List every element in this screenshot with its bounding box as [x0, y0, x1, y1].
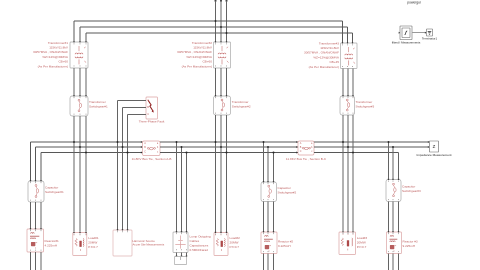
junction bus B / SG2 B	[220, 146, 222, 148]
wire bus A phase 1	[31, 141, 143, 143]
svg-text:Transformer: Transformer	[232, 100, 249, 104]
reactor R2 label	[278, 239, 293, 248]
svg-text:(As Per Manufacturer): (As Per Manufacturer)	[182, 64, 212, 68]
wire lump stub 3	[186, 253, 188, 258]
svg-text:115kV/11.8kV: 115kV/11.8kV	[320, 46, 340, 50]
fault block Three-Phase Fault	[146, 97, 158, 119]
svg-text:P.f=0.7: P.f=0.7	[357, 245, 367, 249]
svg-text:Capacitor: Capacitor	[45, 186, 58, 190]
junction bus A / SG1 C	[85, 151, 87, 153]
wire bus B phase 3	[160, 152, 298, 154]
svg-text:Switchgear#2: Switchgear#2	[278, 191, 297, 195]
wire T3-SG3 phase A	[342, 69, 344, 97]
wire T1 riser A	[73, 21, 75, 42]
wire SG3 feeder C	[352, 115, 354, 231]
wire SG2 feeder C	[226, 115, 228, 232]
transformer T1 Transformer#1	[70, 42, 88, 68]
wire capB drop 3	[273, 153, 275, 182]
wire capC-R3 2	[392, 202, 394, 232]
wire bus C phase 1	[314, 141, 428, 143]
wire T2-SG2 phase C	[226, 68, 228, 96]
svg-text:0.5Mfd/Farad: 0.5Mfd/Farad	[190, 248, 209, 252]
junction source B / top bus	[220, 26, 222, 28]
wire bus C phase 2	[314, 146, 428, 148]
wire SG3 feeder A	[342, 115, 344, 231]
breaker Capacitor Switchgear#1	[28, 181, 44, 202]
svg-text:9.225mH: 9.225mH	[403, 244, 416, 248]
breaker SG3 Transformer Switchgear#3 label	[356, 100, 375, 109]
wire measurement to terminator	[412, 32, 425, 34]
svg-text:9.225mH: 9.225mH	[278, 244, 291, 248]
wire capB-R2 3	[273, 202, 275, 232]
harmonic source label	[133, 239, 165, 247]
breaker Capacitor Switchgear#3	[386, 180, 401, 202]
wire SG1 feeder A	[73, 116, 75, 232]
svg-text:As per Site Measurements: As per Site Measurements	[133, 243, 165, 247]
svg-text:CB+45: CB+45	[329, 60, 339, 64]
svg-text:CB+60: CB+60	[58, 60, 68, 64]
junction bus B / capB 2	[267, 146, 269, 148]
wire bus B phase 1	[160, 141, 298, 143]
svg-text:(As Per Manufacturer): (As Per Manufacturer)	[38, 64, 68, 68]
wire capC drop 3	[398, 153, 400, 180]
wire T3 riser C	[352, 33, 354, 43]
svg-text:Reactor #2: Reactor #2	[278, 239, 293, 243]
breaker SG1 Transformer Switchgear#1 label	[89, 100, 108, 109]
transformer T2 label	[177, 41, 213, 69]
svg-text:%Z=12%@30MVA: %Z=12%@30MVA	[42, 55, 69, 59]
svg-text:A: A	[147, 98, 149, 102]
wire capB drop 1	[263, 142, 265, 182]
wire capA-R1 1	[30, 202, 32, 229]
wire T2-SG2 phase A	[215, 68, 217, 96]
junction bus C / capC 2	[392, 146, 394, 148]
terminator block	[427, 29, 433, 36]
svg-text:Transformer#2: Transformer#2	[192, 41, 212, 45]
svg-text:Switchgear#1: Switchgear#1	[45, 190, 64, 194]
svg-text:115kV/11.8kV: 115kV/11.8kV	[193, 46, 213, 50]
svg-text:11.8KV Bus Tie , Section B-C: 11.8KV Bus Tie , Section B-C	[286, 157, 327, 161]
load L1 Load#1	[73, 233, 87, 256]
wire T3-SG3 phase C	[352, 69, 354, 97]
wire top bus phase B	[80, 26, 348, 28]
svg-text:30/57MVA , ONAN/ONAF: 30/57MVA , ONAN/ONAF	[177, 50, 212, 54]
wire R2 tail 3	[273, 254, 275, 270]
svg-text:Three-Phase Fault: Three-Phase Fault	[139, 120, 165, 124]
wire lump stub 2	[181, 253, 183, 258]
wire R3 tail 1	[388, 254, 390, 270]
svg-text:30/57MVA , ONAN/ONAF: 30/57MVA , ONAN/ONAF	[304, 51, 339, 55]
wire capA drop 2	[35, 147, 37, 181]
junction bus C / capC 1	[387, 141, 389, 143]
svg-text:C: C	[300, 150, 302, 153]
svg-text:P.f=0.7: P.f=0.7	[230, 245, 240, 249]
wire fault drop B	[122, 108, 124, 230]
wire capC drop 1	[388, 142, 390, 179]
svg-text:Cables: Cables	[190, 239, 200, 243]
svg-text:CB+60: CB+60	[202, 60, 212, 64]
junction bus B / lump 3	[185, 151, 187, 153]
junction bus A / fault B	[121, 146, 123, 148]
svg-text:Z: Z	[433, 144, 436, 149]
node utility source terminals	[215, 0, 228, 2]
wire bus C phase 3	[314, 152, 399, 154]
load L1 label	[88, 236, 99, 249]
svg-text:filterd I Measurements: filterd I Measurements	[392, 41, 421, 45]
wire capB-R2 1	[263, 202, 265, 232]
breaker Capacitor Switchgear#3 label	[402, 185, 421, 194]
breaker Capacitor Switchgear#2	[261, 182, 277, 202]
wire R2 tail 1	[263, 254, 265, 270]
wire capA drop 3	[40, 153, 42, 182]
junction bus B / lump 1	[175, 141, 177, 143]
wire bus A phase 3	[41, 152, 143, 154]
wire fault drop C	[127, 115, 129, 230]
svg-text:B: B	[147, 105, 149, 109]
svg-text:Switchgear#1: Switchgear#1	[89, 105, 108, 109]
svg-text:Reactor#1: Reactor#1	[45, 239, 60, 243]
load L3 label	[357, 236, 368, 249]
wire fault B horizontal	[123, 107, 147, 109]
capacitor bank Lump Outgoing Cables	[173, 232, 188, 253]
svg-text:Capacitor: Capacitor	[278, 186, 291, 190]
wire bus A phase 2	[36, 146, 143, 148]
lump outgoing cables label	[190, 234, 211, 252]
svg-text:11.8KV Bus Tie , Section A-B: 11.8KV Bus Tie , Section A-B	[132, 157, 172, 161]
svg-text:30/57MVA , ONAN/ONAF: 30/57MVA , ONAN/ONAF	[33, 50, 68, 54]
svg-text:Switchgear#3: Switchgear#3	[356, 105, 375, 109]
wire R2 tail 2	[267, 254, 269, 270]
wire T1-SG1 phase A	[73, 68, 75, 96]
svg-text:%Z=12%@30MVA: %Z=12%@30MVA	[313, 55, 340, 59]
wire lump drop 3	[186, 153, 188, 232]
wire lump drop 2	[181, 147, 183, 232]
load L3 Load#3	[339, 232, 356, 255]
svg-text:Impedance Measurement: Impedance Measurement	[416, 153, 451, 157]
wire lump stub 1	[176, 253, 178, 258]
svg-text:4.225mH: 4.225mH	[45, 244, 58, 248]
svg-text:%Z=12%@30MVA: %Z=12%@30MVA	[186, 55, 213, 59]
junction source C / top bus	[225, 32, 227, 34]
breaker bus tie B-C block	[298, 141, 314, 155]
svg-text:powergui: powergui	[407, 0, 421, 4]
wire T1 riser B	[79, 27, 81, 42]
transformer T1 label	[33, 41, 69, 69]
wire fault drop A	[117, 101, 119, 230]
breaker Capacitor Switchgear#2 label	[278, 186, 297, 195]
junction source A / top bus	[214, 20, 216, 22]
wire source phase B drop	[220, 1, 222, 43]
wire T2-SG2 phase B	[220, 68, 222, 96]
wire R1 tail 2	[35, 252, 37, 270]
junction bus B / capB 3	[272, 151, 274, 153]
breaker Capacitor Switchgear#1 label	[45, 186, 64, 195]
wire capB drop 2	[267, 147, 269, 182]
breaker bus tie A-B block	[143, 141, 161, 156]
junction bus B / SG2 C	[225, 151, 227, 153]
measurement block filterd I Measurements	[400, 26, 412, 40]
wire top bus phase C	[86, 32, 353, 34]
wire source phase C drop	[226, 1, 228, 43]
wire T3-SG3 phase B	[347, 69, 349, 97]
wire capC-R3 1	[388, 202, 390, 232]
wire SG2 feeder B	[220, 115, 222, 232]
junction bus A / fault A	[116, 141, 118, 143]
junction bus A / SG1 A	[73, 141, 75, 143]
ground block below lump cables	[175, 257, 187, 265]
wire SG2 feeder A	[215, 115, 217, 232]
svg-text:Transformer#3: Transformer#3	[319, 41, 339, 45]
wire source phase A drop	[215, 1, 217, 43]
junction bus B / capB 1	[262, 141, 264, 143]
wire T3 riser A	[342, 21, 344, 43]
wire fault C horizontal	[128, 114, 147, 116]
reactor R3 Reactor#3	[387, 232, 402, 254]
load L2 Load#2	[214, 233, 228, 256]
wire top bus phase A	[74, 20, 343, 22]
wire R3 tail 2	[392, 254, 394, 270]
wire T3 riser B	[347, 27, 349, 43]
transformer T3 Transformer#3	[341, 43, 358, 69]
junction bus C / SG3 B	[347, 146, 349, 148]
wire T1-SG1 phase C	[85, 68, 87, 96]
wire T1-SG1 phase B	[79, 68, 81, 96]
reactor R3 label	[403, 239, 418, 248]
wire lump drop 1	[176, 142, 178, 232]
impedance measurement block	[430, 141, 439, 152]
reactor R1 Reactor#1	[27, 229, 44, 252]
wire fault A horizontal	[118, 100, 147, 102]
svg-text:Transformer#1: Transformer#1	[48, 41, 68, 45]
breaker SG2 Transformer Switchgear#2	[214, 96, 231, 115]
wire capA-R1 2	[35, 202, 37, 229]
wire SG1 feeder C	[85, 116, 87, 232]
junction bus A / SG1 B	[79, 146, 81, 148]
svg-text:Harmonic Source: Harmonic Source	[133, 239, 156, 243]
transformer T3 label	[304, 41, 340, 69]
wire capA-R1 3	[40, 202, 42, 229]
svg-text:Capacitances: Capacitances	[190, 243, 209, 247]
svg-text:Switchgear#2: Switchgear#2	[232, 105, 251, 109]
svg-text:C: C	[144, 150, 146, 153]
junction bus B / SG2 A	[214, 141, 216, 143]
wire capC-R3 3	[398, 202, 400, 232]
breaker SG2 Transformer Switchgear#2 label	[232, 100, 251, 109]
wire R1 tail 3	[40, 252, 42, 270]
svg-text:115kV/11.8kV: 115kV/11.8kV	[49, 46, 69, 50]
svg-text:Switchgear#3: Switchgear#3	[402, 189, 421, 193]
junction bus B / lump 2	[180, 146, 182, 148]
svg-text:Lump Outgoing: Lump Outgoing	[190, 234, 211, 238]
wire R1 tail 1	[30, 252, 32, 270]
wire R3 tail 3	[398, 254, 400, 270]
wire capC drop 2	[392, 147, 394, 179]
breaker SG1 Transformer Switchgear#1	[70, 96, 88, 116]
svg-text:Transformer: Transformer	[356, 100, 373, 104]
svg-text:Terminator1: Terminator1	[422, 37, 438, 41]
svg-text:Reactor #3: Reactor #3	[403, 239, 418, 243]
wire capB-R2 2	[267, 202, 269, 232]
svg-text:(As Per Manufacturer): (As Per Manufacturer)	[309, 65, 339, 69]
reactor R1 label	[45, 239, 60, 248]
svg-text:P.f=0.7: P.f=0.7	[88, 245, 98, 249]
wire T1 riser C	[85, 33, 87, 42]
wire capA drop 1	[30, 142, 32, 181]
transformer T2 Transformer#2	[214, 42, 231, 68]
wire bus B phase 2	[160, 146, 298, 148]
harmonic source block	[113, 230, 132, 256]
wire SG1 feeder B	[79, 116, 81, 232]
svg-text:Capacitor: Capacitor	[402, 185, 415, 189]
reactor R2 Reactor#2	[261, 232, 277, 254]
junction bus C / SG3 C	[352, 151, 354, 153]
junction bus A / fault C	[126, 151, 128, 153]
svg-text:Transformer: Transformer	[89, 100, 106, 104]
breaker SG3 Transformer Switchgear#3	[340, 96, 355, 115]
svg-text:C: C	[147, 112, 149, 116]
wire SG3 feeder B	[347, 115, 349, 231]
junction bus C / SG3 A	[342, 141, 344, 143]
load L2 label	[230, 236, 241, 249]
